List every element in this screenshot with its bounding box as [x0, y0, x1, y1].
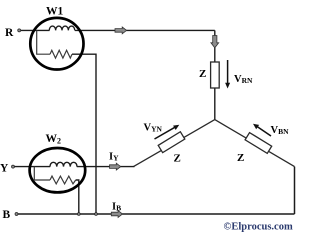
svg-text:IB: IB: [112, 201, 121, 212]
wire W2 pressure-coil drop to B line: [76, 180, 79, 214]
wattmeter W1 ellipse: [30, 18, 83, 70]
W2 current coil L: [50, 162, 77, 166]
impedance Z2 (Y phase) rectangle rotated: [158, 132, 185, 153]
wire left diagonal N to Y kink: [134, 120, 215, 167]
wire Y line horizontal left: [13, 166, 50, 168]
current block arrow down on R drop: [211, 36, 219, 48]
svg-text:W1: W1: [46, 5, 64, 17]
wire W1 pressure-coil lead and vertical drop to B line: [72, 54, 96, 214]
svg-text:R: R: [5, 27, 14, 39]
W1 current coil L: [49, 26, 74, 30]
svg-text:Z: Z: [237, 152, 244, 164]
terminal dot Y: [12, 165, 15, 168]
wire R line horizontal left: [19, 29, 50, 31]
current block arrow on R line: [115, 27, 127, 34]
junction dot W2 drop on B line: [77, 213, 80, 216]
terminal dot R: [18, 29, 21, 32]
svg-text:VYN: VYN: [144, 123, 163, 134]
terminal dot B: [15, 213, 18, 216]
svg-text:VRN: VRN: [234, 74, 253, 85]
svg-text:IY: IY: [109, 152, 119, 163]
impedance Z1 (R phase) rectangle: [211, 62, 220, 88]
svg-text:©Elprocus.com: ©Elprocus.com: [224, 222, 293, 233]
W1 pressure coil resistor: [50, 50, 72, 58]
wire right diagonal N to right corner: [215, 120, 295, 167]
wire right drop vertical: [294, 167, 296, 214]
current block arrow IB on B line: [111, 211, 122, 218]
svg-text:B: B: [3, 209, 11, 221]
impedance Z3 (B phase) rectangle rotated: [245, 133, 272, 154]
W2 pressure coil resistor: [50, 176, 76, 184]
voltage arrow VYN (up-right): [155, 125, 180, 139]
wire B line horizontal: [17, 213, 295, 215]
W2 internal connector wire: [34, 167, 50, 180]
voltage arrow VRN (down): [225, 60, 230, 89]
wire Y line horizontal right: [77, 166, 135, 168]
svg-text:Z: Z: [199, 68, 206, 80]
voltage arrow VBN (up-left): [253, 124, 271, 136]
wire R drop vertical to Z1: [214, 30, 216, 63]
W1 internal connector wire: [37, 30, 50, 54]
svg-text:Z: Z: [174, 153, 181, 165]
svg-text:Y: Y: [0, 163, 9, 175]
current block arrow IY on Y line: [110, 163, 121, 170]
svg-text:VBN: VBN: [271, 125, 290, 136]
wattmeter W2 ellipse: [30, 148, 86, 192]
wire R line horizontal right: [75, 29, 215, 31]
wire Z1 bottom to star point N: [214, 87, 216, 120]
junction dot W1 drop on B line: [95, 213, 98, 216]
